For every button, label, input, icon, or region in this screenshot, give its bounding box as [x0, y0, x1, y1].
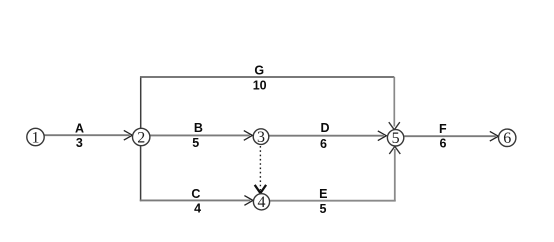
- wire E riser into node 5 (vertical up): [394, 149, 396, 201]
- svg-text:3: 3: [257, 129, 265, 146]
- label D: [320, 121, 329, 135]
- svg-text:4: 4: [258, 194, 266, 211]
- label G: [254, 64, 264, 78]
- svg-text:G: G: [254, 64, 264, 78]
- label C: [191, 187, 200, 201]
- svg-text:E: E: [319, 187, 327, 201]
- arrowhead D into node 5: [378, 131, 387, 141]
- wire G riser from node 2 (vertical up): [140, 76, 142, 128]
- wire E shaft (horizontal from node 4): [270, 200, 396, 202]
- node 4: [253, 194, 269, 211]
- label 4 (duration of C): [194, 202, 201, 216]
- svg-text:4: 4: [194, 202, 201, 216]
- svg-text:5: 5: [320, 202, 327, 216]
- wire A shaft (node 1 to node 2): [44, 134, 129, 136]
- label A: [75, 121, 84, 135]
- arrowhead A into node 2: [124, 130, 133, 140]
- wire C shaft (horizontal to node 4): [140, 199, 251, 201]
- svg-text:3: 3: [76, 136, 83, 150]
- label 10 (duration of G): [253, 78, 267, 92]
- label E: [319, 187, 327, 201]
- svg-text:10: 10: [253, 78, 267, 92]
- svg-text:F: F: [439, 122, 447, 136]
- arrowhead C into node 4: [244, 196, 253, 206]
- node 2: [133, 128, 150, 146]
- svg-text:2: 2: [137, 129, 145, 146]
- wire C drop from node 2 (vertical down): [140, 146, 142, 202]
- label 5 (duration of B): [192, 136, 199, 150]
- svg-text:5: 5: [392, 130, 400, 147]
- arrowhead B into node 3: [244, 131, 253, 141]
- wire G top horizontal: [140, 76, 394, 78]
- label 3 (duration of A): [76, 136, 83, 150]
- svg-text:6: 6: [440, 137, 447, 151]
- arrowhead G into node 5 top: [389, 122, 400, 130]
- svg-text:6: 6: [503, 130, 511, 147]
- arrowhead dummy into node 4 top: [255, 185, 266, 193]
- label B: [194, 121, 203, 135]
- svg-text:C: C: [191, 187, 200, 201]
- node 3: [253, 129, 269, 146]
- label 6 (duration of D): [320, 137, 327, 151]
- node 5: [387, 130, 403, 148]
- node 1: [27, 128, 44, 146]
- label 6 (duration of F): [440, 137, 447, 151]
- wire D shaft (node 3 to node 5): [268, 135, 383, 137]
- arrowhead F into node 6: [490, 131, 499, 141]
- wire F shaft (node 5 to node 6): [404, 135, 496, 137]
- wire G drop into node 5 (vertical down): [393, 77, 395, 127]
- svg-text:B: B: [194, 121, 203, 135]
- svg-text:1: 1: [32, 129, 40, 146]
- svg-text:6: 6: [320, 137, 327, 151]
- svg-text:5: 5: [192, 136, 199, 150]
- arrowhead E into node 5 bottom: [389, 146, 400, 154]
- wire B shaft (node 2 to node 3): [150, 134, 250, 136]
- wire dummy activity (dotted, node 3 to node 4): [259, 146, 261, 191]
- label F: [439, 122, 447, 136]
- svg-text:A: A: [75, 121, 84, 135]
- node 6: [499, 129, 516, 147]
- label 5 (duration of E): [320, 202, 327, 216]
- svg-text:D: D: [320, 121, 329, 135]
